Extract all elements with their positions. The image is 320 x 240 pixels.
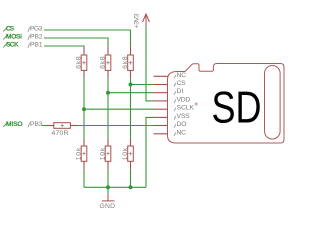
- wire 470R to SD DO pin: [79, 125, 154, 127]
- svg-text:PB1: PB1: [30, 41, 43, 48]
- pin label PB3: [28, 123, 30, 128]
- svg-text:10k: 10k: [122, 147, 129, 160]
- wire MOSI horizontal then down to R2: [44, 38, 108, 46]
- wire DI node to SD DI pin: [108, 92, 154, 94]
- svg-text:PB2: PB2: [30, 33, 43, 40]
- supply +3V3 arrow: [143, 14, 150, 27]
- SD card contact stripe: [265, 66, 281, 140]
- wire DI node down to 10k R5: [107, 93, 109, 138]
- svg-text:470R: 470R: [52, 130, 69, 137]
- pin 5 name SCLK: [174, 108, 176, 112]
- wire MISO to 470R: [42, 125, 47, 127]
- node MOSI (port flag): [3, 34, 8, 39]
- pin 6 VSS stub: [154, 116, 168, 118]
- wire VSS pin to ground rail: [146, 117, 154, 187]
- pin 4 VDD stub: [154, 100, 168, 102]
- ground GND symbol: [102, 193, 115, 201]
- svg-text:NC: NC: [177, 129, 187, 136]
- resistor 470R (MISO series): [47, 123, 79, 129]
- svg-text:MISO: MISO: [6, 121, 23, 128]
- junction DI node: [106, 91, 110, 95]
- wire SCLK node to SD SCLK pin: [84, 108, 154, 110]
- svg-text:PG3: PG3: [30, 25, 43, 32]
- svg-text:VDD: VDD: [177, 96, 191, 103]
- svg-text:6k8: 6k8: [76, 56, 83, 69]
- resistor 10k R5 (DI pulldown): [105, 138, 111, 170]
- node CS (port flag): [3, 26, 8, 31]
- svg-text:6k8: 6k8: [122, 56, 129, 69]
- wire SCK horizontal to R1: [44, 45, 84, 47]
- resistor 10k R6 (CS pulldown): [128, 138, 134, 170]
- wire R1 bottom to SCLK node: [83, 78, 85, 109]
- svg-text:6k8: 6k8: [100, 56, 107, 69]
- wire R6 bottom to ground rail: [130, 170, 132, 188]
- wire R4 bottom to ground rail: [83, 170, 85, 188]
- pin label PB1: [28, 43, 30, 48]
- svg-text:SD: SD: [212, 83, 262, 132]
- node SCK (port flag): [3, 42, 8, 47]
- SD card U1 outline: [168, 64, 285, 144]
- svg-text:10k: 10k: [100, 147, 107, 160]
- pin 8 NC stub: [154, 133, 168, 135]
- svg-text:+3V3: +3V3: [134, 13, 141, 28]
- svg-text:CS: CS: [6, 25, 15, 32]
- svg-text:GND: GND: [100, 203, 116, 210]
- wire ground rail: [84, 186, 146, 188]
- wire SCLK node down to 10k R4: [83, 109, 85, 138]
- svg-text:NC: NC: [177, 72, 187, 79]
- pin 7 DO stub: [154, 125, 168, 127]
- pin 3 name DI: [174, 91, 176, 95]
- resistor 6k8 R3 (CS series): [128, 46, 134, 78]
- svg-text:SCK: SCK: [6, 41, 19, 48]
- junction SCLK node: [82, 107, 86, 111]
- wire CS horizontal then down to R3: [44, 30, 131, 46]
- wire R5 bottom to ground rail: [107, 170, 109, 188]
- svg-text:10k: 10k: [76, 147, 83, 160]
- wire rail to GND symbol: [107, 187, 109, 193]
- junction CS node: [129, 83, 133, 87]
- svg-text:SCLK: SCLK: [177, 105, 195, 112]
- junction rail R5: [106, 185, 110, 189]
- pin 2 name CS: [174, 83, 176, 87]
- svg-text:VSS: VSS: [177, 113, 191, 120]
- pin label PG3: [28, 27, 30, 32]
- wire +3V3 to VDD pin: [146, 27, 154, 101]
- svg-text:DI: DI: [177, 88, 184, 95]
- pin 5 SCLK stub: [154, 108, 168, 110]
- pin 6 name VSS: [174, 116, 176, 120]
- wire CS node to SD CS pin: [131, 84, 154, 86]
- wire CS node down to 10k R6: [130, 85, 132, 138]
- pin 1 NC stub: [154, 75, 168, 77]
- pin 4 name VDD: [174, 100, 176, 104]
- pin label PB2: [28, 35, 30, 40]
- wire R2 bottom to DI node: [107, 78, 109, 93]
- pin 8 name NC: [174, 132, 176, 136]
- svg-text:DO: DO: [177, 121, 187, 128]
- resistor 6k8 R2 (MOSI series): [105, 46, 111, 78]
- pin 7 name DO: [174, 124, 176, 128]
- svg-text:MOSI: MOSI: [6, 33, 22, 40]
- svg-text:CS: CS: [177, 80, 186, 87]
- pin 2 CS stub: [154, 84, 168, 86]
- SD card origin cross: [195, 102, 198, 105]
- resistor 6k8 R1 (SCK series): [81, 46, 87, 78]
- pin 1 name NC: [174, 75, 176, 79]
- pin 3 DI stub: [154, 92, 168, 94]
- wire R3 bottom to CS node: [130, 78, 132, 84]
- node MISO (port flag): [3, 122, 8, 127]
- svg-text:PB3: PB3: [30, 121, 43, 128]
- junction rail R6: [129, 185, 133, 189]
- resistor 10k R4 (SCLK pulldown): [81, 138, 87, 170]
